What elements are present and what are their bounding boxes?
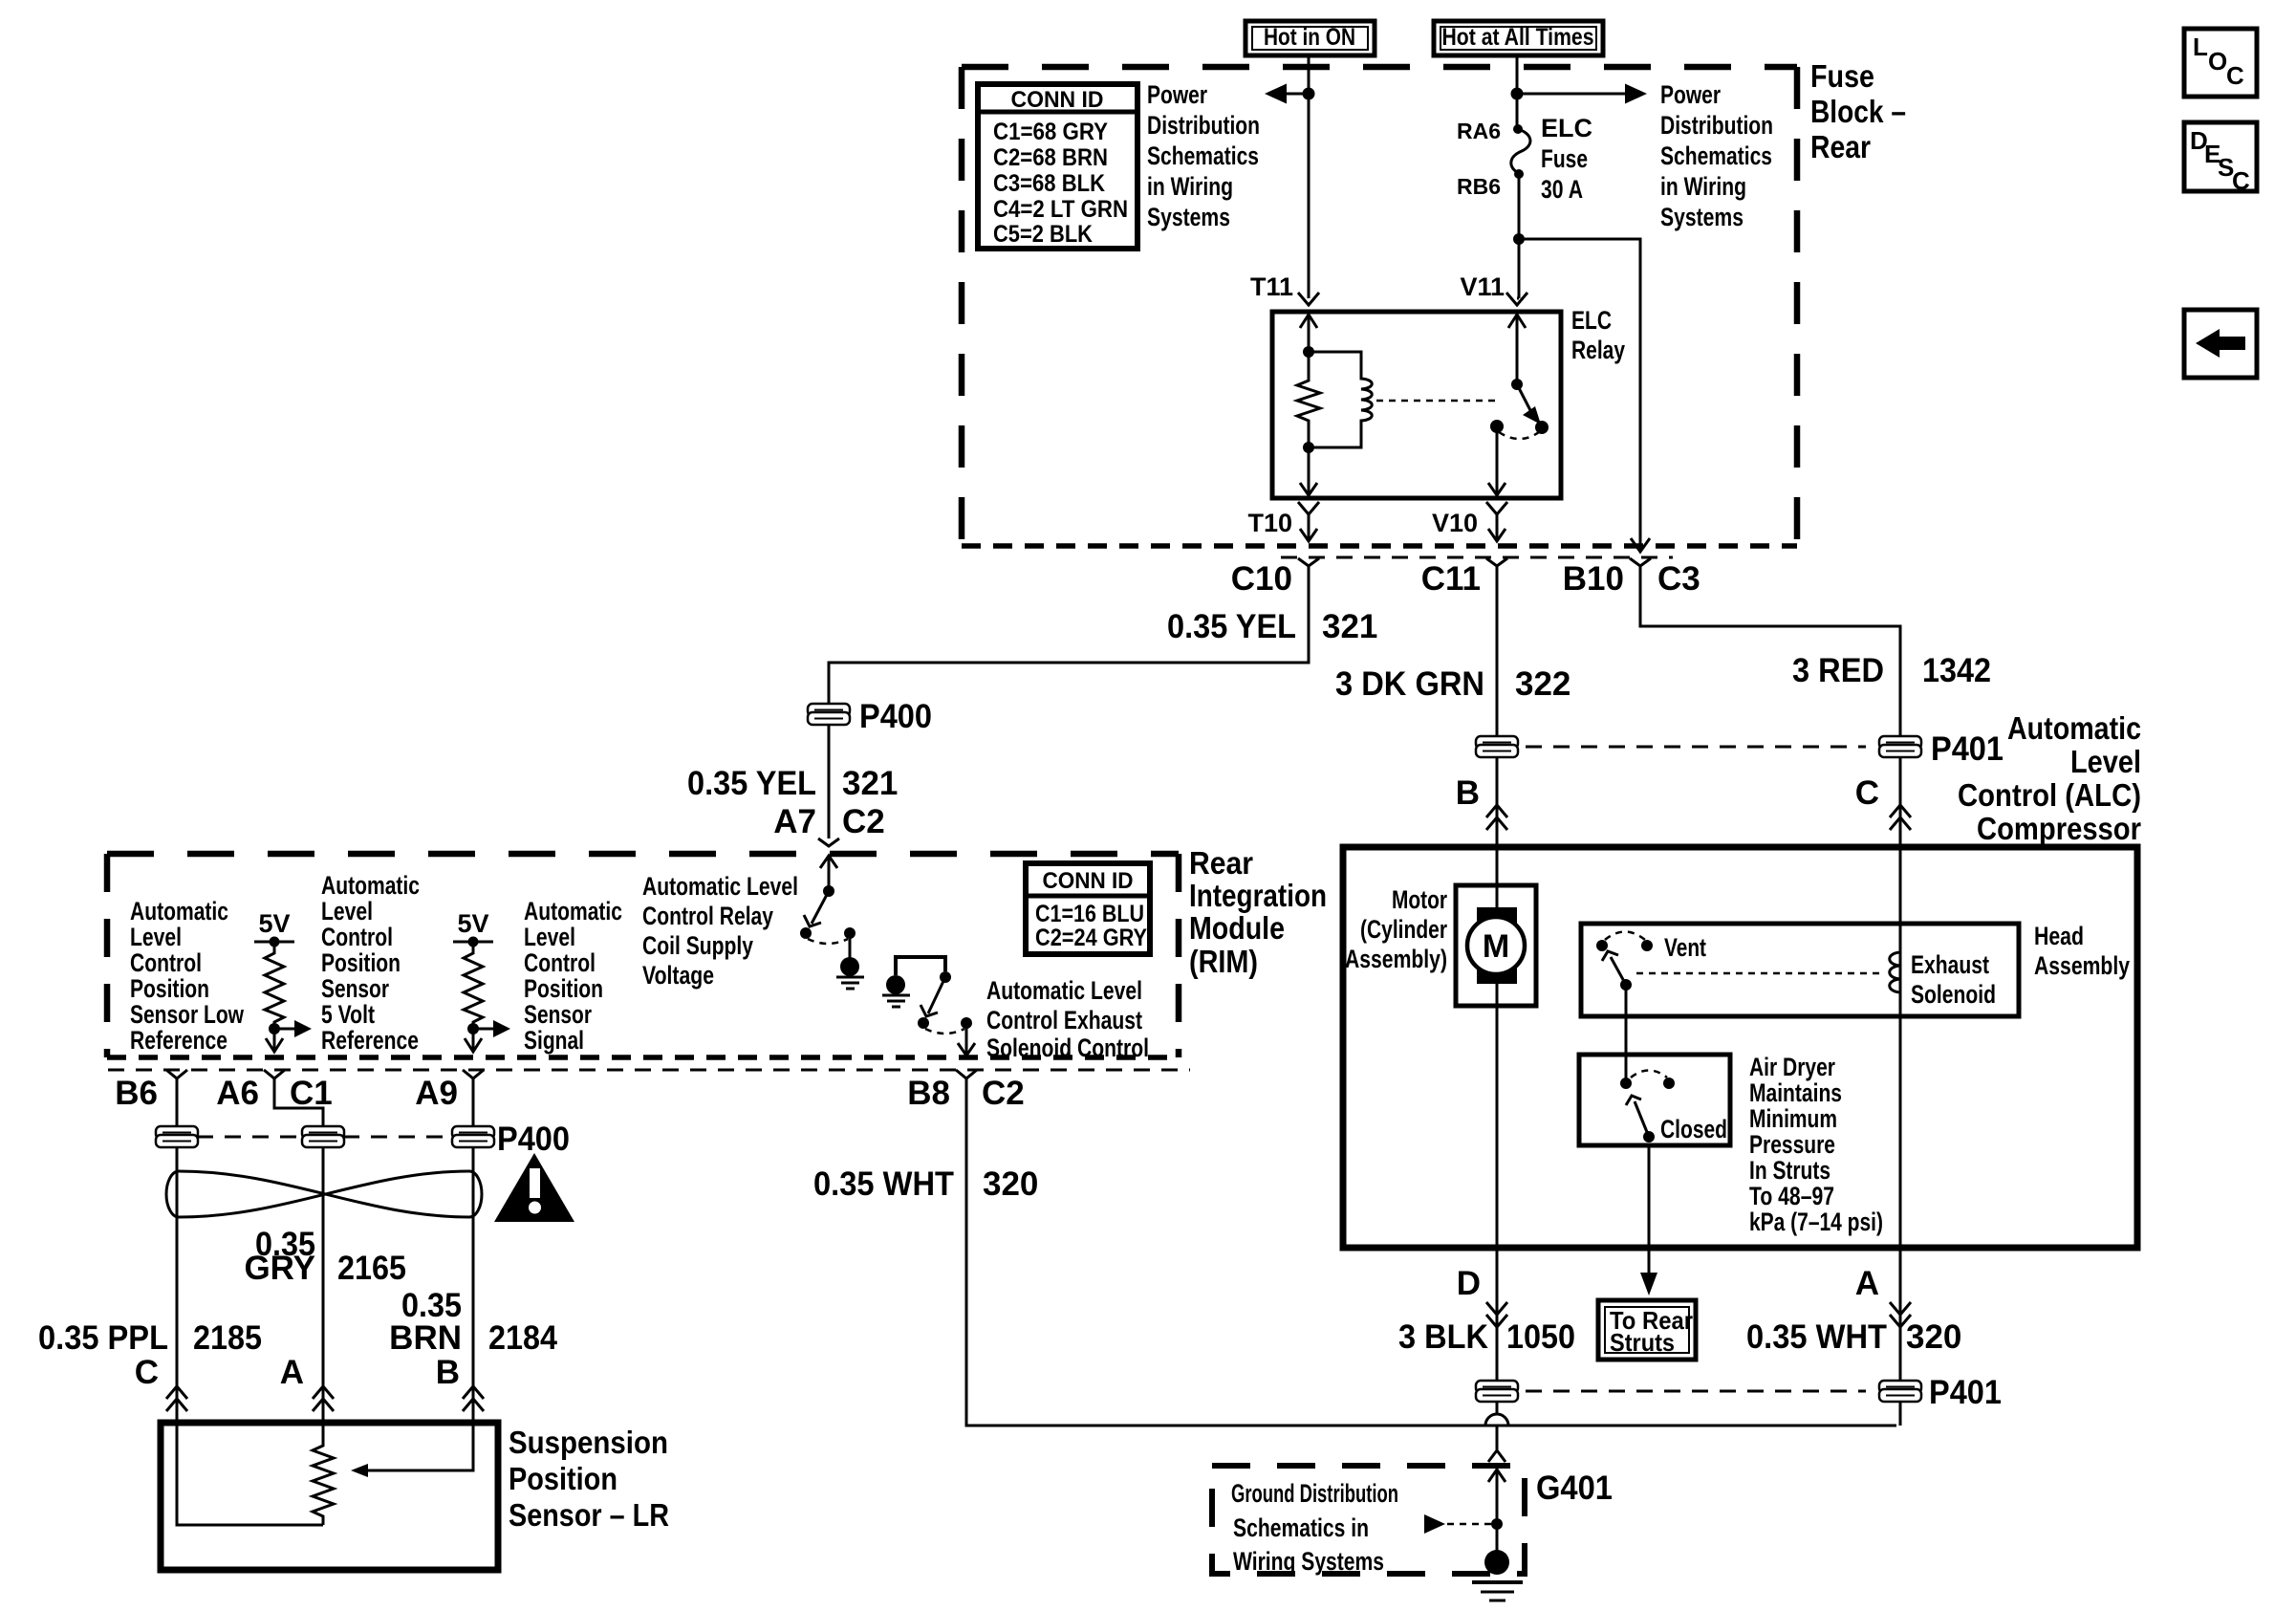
svg-text:Head: Head: [2034, 922, 2084, 950]
wire A down to P401: [1899, 1248, 1902, 1382]
double chevron at A: [313, 1386, 334, 1411]
svg-text:0.35 PPL: 0.35 PPL: [38, 1319, 168, 1357]
svg-text:Relay: Relay: [1571, 336, 1625, 364]
B8/C2 Y connector: [956, 1070, 977, 1078]
inline connector P401 on DK GRN wire: [1476, 736, 1518, 757]
air dryer dashed arc: [1631, 1071, 1667, 1078]
svg-text:Suspension: Suspension: [509, 1425, 668, 1460]
svg-text:Automatic: Automatic: [2007, 710, 2141, 746]
ELC fuse RA6 terminal dot: [1513, 124, 1523, 134]
arrow to right power distribution: [1517, 93, 1625, 96]
svg-text:3 RED: 3 RED: [1792, 652, 1884, 689]
exhaust solenoid switch top bar: [896, 957, 945, 975]
Rear Integration Module dashed enclosure: [107, 851, 1179, 858]
vent switch pivot dot: [1620, 979, 1632, 991]
label "Automatic Level Control (ALC) Compressor": [1958, 710, 2141, 846]
svg-text:T11: T11: [1250, 272, 1293, 301]
double chevron at A: [1890, 1302, 1911, 1327]
Y connector at RIM A7 entry: [818, 838, 839, 846]
svg-text:Assembly: Assembly: [2034, 951, 2130, 980]
svg-text:Sensor Low: Sensor Low: [130, 1000, 245, 1029]
junction dot 2: [467, 1023, 479, 1034]
svg-text:C: C: [1855, 774, 1879, 812]
svg-text:5V: 5V: [258, 909, 290, 938]
twisted pair symbol: [166, 1171, 482, 1217]
svg-text:P401: P401: [1931, 730, 2004, 768]
svg-text:C5=2 BLK: C5=2 BLK: [993, 221, 1093, 248]
svg-text:Struts: Struts: [1610, 1328, 1675, 1357]
relay switch alternate contact dot: [1535, 421, 1549, 434]
svg-text:G401: G401: [1536, 1469, 1613, 1507]
wire RED below P401 to ALC: [1899, 756, 1902, 847]
svg-text:M: M: [1483, 928, 1509, 965]
svg-text:B10: B10: [1563, 560, 1624, 598]
LOC button: [2184, 29, 2257, 97]
Suspension Position Sensor box: [161, 1423, 498, 1570]
svg-text:Control: Control: [130, 948, 202, 977]
warning triangle: [494, 1153, 574, 1222]
svg-text:Hot at All Times: Hot at All Times: [1442, 24, 1594, 51]
svg-text:Automatic: Automatic: [321, 871, 420, 900]
ground symbol 2: [882, 975, 910, 1007]
relay switch dashed travel arc: [1499, 432, 1539, 439]
junction dot on V11 wire: [1511, 88, 1524, 100]
inline connector P401 on BLK wire (bottom): [1476, 1381, 1518, 1402]
relay output arrow down inside box left: [1308, 447, 1310, 496]
double chevron into ALC at B: [1486, 805, 1507, 830]
svg-text:Assembly): Assembly): [1345, 945, 1447, 973]
svg-text:Position: Position: [524, 974, 603, 1003]
svg-text:Control Relay: Control Relay: [642, 902, 773, 930]
exhaust solenoid switch arm: [928, 977, 945, 1013]
label "Motor (Cylinder Assembly)": [1345, 885, 1447, 973]
arrow to left power distribution: [1287, 93, 1309, 96]
svg-text:320: 320: [1906, 1318, 1961, 1356]
Y connector at V11: [1506, 293, 1527, 305]
Ground Distribution dashed box: [1212, 1466, 1525, 1574]
label "ELC Fuse 30 A": [1541, 114, 1592, 204]
inline connector P401 on RED wire: [1879, 736, 1921, 757]
svg-text:P400: P400: [497, 1121, 570, 1158]
svg-text:C4=2 LT GRN: C4=2 LT GRN: [993, 196, 1128, 223]
B10/C3 Y connector: [1630, 558, 1651, 566]
resistor 1: [265, 942, 284, 1029]
air dryer pivot dot: [1620, 1078, 1632, 1089]
svg-text:RB6: RB6: [1457, 174, 1501, 199]
svg-text:322: 322: [1515, 665, 1570, 703]
svg-text:In Struts: In Struts: [1749, 1156, 1830, 1185]
svg-text:0.35 YEL: 0.35 YEL: [1167, 608, 1296, 645]
relay switch pivot dot: [1511, 379, 1523, 390]
text "Air Dryer Maintains Minimum Pressure In Struts To 48-97 kPa (7-14 psi)": [1749, 1053, 1883, 1236]
C11 Y connector: [1486, 558, 1507, 566]
wire from vent switch to air dryer: [1625, 985, 1628, 1083]
dashed link between bottom P401 connectors: [1526, 1390, 1866, 1393]
svg-text:ELC: ELC: [1571, 306, 1612, 335]
svg-text:Automatic Level: Automatic Level: [642, 872, 798, 901]
wire motor down to D: [1496, 973, 1499, 1248]
svg-text:5V: 5V: [457, 909, 488, 938]
svg-text:2165: 2165: [337, 1250, 406, 1287]
svg-text:Motor: Motor: [1392, 885, 1447, 914]
svg-text:Automatic: Automatic: [130, 897, 228, 925]
svg-text:B: B: [436, 1354, 460, 1391]
arrow right from resistor 2: [473, 1028, 493, 1031]
text "Automatic Level Control Position Sensor Signal": [524, 897, 622, 1055]
relay supply switch arm: [812, 891, 829, 924]
chevron above G401: [1488, 1450, 1505, 1462]
svg-text:Level: Level: [524, 923, 575, 951]
wire down from resistor 2: [472, 1029, 475, 1051]
V10 Y connector below relay: [1486, 502, 1507, 514]
svg-text:in Wiring: in Wiring: [1660, 172, 1746, 201]
svg-text:Level: Level: [321, 897, 373, 925]
svg-text:D: D: [1457, 1265, 1481, 1302]
svg-text:CONN ID: CONN ID: [1043, 868, 1134, 894]
svg-text:A6: A6: [216, 1075, 259, 1112]
C10 Y connector: [1298, 558, 1319, 566]
svg-text:C: C: [2226, 61, 2244, 90]
box "Hot in ON": [1245, 21, 1375, 55]
ground symbol G401: [1472, 1550, 1523, 1600]
relay coil input arrow (up) on T11: [1300, 315, 1317, 328]
svg-text:2185: 2185: [193, 1319, 262, 1357]
5V bar 1: [254, 941, 294, 944]
text "Automatic Level Control Exhaust Solenoid Control": [986, 976, 1149, 1062]
svg-text:Signal: Signal: [524, 1026, 584, 1055]
svg-text:Coil Supply: Coil Supply: [642, 931, 753, 960]
svg-text:C2: C2: [982, 1075, 1025, 1112]
relay switch contact dot (to V10): [1490, 420, 1504, 433]
dashed link to exhaust solenoid: [1636, 972, 1879, 975]
svg-text:GRY: GRY: [244, 1250, 315, 1287]
junction dot to B10 branch: [1513, 233, 1525, 245]
wire BLK below P401 with hop over horizontal run: [1496, 1401, 1499, 1414]
double chevron at C: [166, 1386, 187, 1411]
V10 wire to fuse block edge: [1496, 514, 1499, 540]
output wire down to B8: [965, 1023, 968, 1055]
wire V11 vertical from Hot at All Times: [1516, 55, 1519, 129]
inline connector P400 on C1 wire: [302, 1126, 344, 1147]
relay coil: [1309, 352, 1372, 447]
connector row thin dashed line below RIM: [108, 1069, 1190, 1072]
svg-text:30 A: 30 A: [1541, 175, 1583, 204]
Head Assembly box: [1581, 924, 2019, 1016]
motor commutator top: [1477, 907, 1517, 933]
double chevron at D: [1486, 1302, 1507, 1327]
arrow right from resistor 1: [274, 1028, 294, 1031]
dashed link between P400 connectors: [197, 1136, 303, 1139]
relay switch arm with arrowhead: [1517, 384, 1532, 414]
svg-text:Control: Control: [524, 948, 596, 977]
svg-text:1342: 1342: [1922, 652, 1991, 689]
svg-text:C11: C11: [1421, 560, 1481, 598]
Motor box: [1456, 885, 1536, 1006]
wire B6 down: [176, 1078, 179, 1423]
svg-text:A7: A7: [773, 803, 816, 840]
relay supply switch pivot dot: [823, 885, 834, 897]
DESC button: [2184, 122, 2257, 195]
svg-text:Sensor: Sensor: [524, 1000, 592, 1029]
svg-text:Control: Control: [321, 923, 393, 951]
wire down from resistor 1: [273, 1029, 276, 1051]
svg-text:ELC: ELC: [1541, 114, 1592, 142]
air dryer closed contact dot: [1643, 1131, 1655, 1143]
svg-text:Automatic Level: Automatic Level: [986, 976, 1142, 1005]
svg-text:Level: Level: [130, 923, 182, 951]
connector row thin dashed line below fuse block: [1281, 556, 1673, 559]
svg-text:P401: P401: [1929, 1374, 2002, 1411]
junction dot on T11 wire: [1303, 88, 1315, 100]
svg-text:A9: A9: [415, 1075, 458, 1112]
svg-text:Ground Distribution: Ground Distribution: [1231, 1479, 1398, 1508]
svg-text:Voltage: Voltage: [642, 961, 714, 990]
svg-text:T10: T10: [1247, 509, 1292, 537]
wire A6/C1 down with jog: [274, 1078, 323, 1423]
svg-text:Air Dryer: Air Dryer: [1749, 1053, 1835, 1081]
svg-text:Systems: Systems: [1147, 203, 1230, 231]
wire 0.35 WHT 320 down from B8: [966, 1078, 1896, 1426]
arrow down at B10: [1631, 538, 1650, 552]
relay switch input arrow (up) on V11: [1508, 315, 1526, 328]
svg-text:A: A: [1855, 1265, 1879, 1302]
A6/C1 Y connector: [264, 1070, 285, 1078]
svg-text:3 DK GRN: 3 DK GRN: [1335, 665, 1484, 703]
relay switch output wire down: [1496, 426, 1499, 496]
relay supply switch dashed arc: [808, 939, 848, 944]
back arrow button: [2184, 310, 2257, 378]
svg-text:Rear: Rear: [1810, 129, 1871, 164]
svg-text:1050: 1050: [1506, 1318, 1575, 1356]
svg-text:Block –: Block –: [1810, 94, 1906, 129]
svg-text:C: C: [2232, 166, 2250, 195]
ELC Relay box: [1272, 312, 1561, 498]
RIM entry arrow (up) at A7: [820, 856, 837, 868]
svg-text:Schematics: Schematics: [1147, 142, 1259, 170]
exhaust solenoid switch dashed arc: [925, 1029, 964, 1034]
svg-text:Distribution: Distribution: [1660, 111, 1773, 140]
svg-text:0.35 WHT: 0.35 WHT: [813, 1165, 954, 1203]
svg-text:320: 320: [983, 1165, 1038, 1203]
svg-text:Vent: Vent: [1664, 933, 1706, 962]
text "Automatic Level Control Position Sensor Low Reference": [130, 897, 245, 1055]
svg-text:Systems: Systems: [1660, 203, 1744, 231]
inline connector P400 on YEL wire: [808, 704, 850, 725]
svg-text:Wiring Systems: Wiring Systems: [1233, 1547, 1384, 1576]
svg-text:CONN ID: CONN ID: [1011, 87, 1104, 113]
svg-text:Power: Power: [1660, 80, 1721, 109]
air dryer second dot: [1663, 1078, 1675, 1089]
wire YEL below P400: [828, 724, 831, 838]
wire branch to B10/C3: [1519, 239, 1640, 551]
air dryer switch arm: [1635, 1101, 1649, 1137]
svg-text:C1: C1: [290, 1075, 333, 1112]
CONN ID table (RIM): [1026, 863, 1150, 954]
box "Hot at All Times": [1434, 21, 1603, 55]
svg-text:B: B: [1456, 774, 1480, 812]
svg-text:C: C: [135, 1354, 159, 1391]
relay junction dot bottom: [1303, 442, 1314, 453]
inline connector P401 on WHT wire (bottom): [1879, 1381, 1921, 1402]
svg-text:B6: B6: [115, 1075, 158, 1112]
svg-text:3 BLK: 3 BLK: [1398, 1318, 1488, 1356]
inline connector P400 on B6 wire: [156, 1126, 198, 1147]
ALC Compressor box: [1343, 847, 2137, 1248]
relay resistor: [1297, 352, 1320, 447]
vent switch second dot: [1641, 940, 1653, 951]
relay coil-switch dashed link: [1376, 400, 1501, 403]
svg-text:Maintains: Maintains: [1749, 1078, 1842, 1107]
5V bar 2: [453, 941, 493, 944]
svg-text:(RIM): (RIM): [1189, 944, 1258, 979]
svg-text:C2: C2: [842, 803, 885, 840]
text "Automatic Level Control Relay Coil Supply Voltage": [642, 872, 798, 990]
svg-text:Solenoid Control: Solenoid Control: [986, 1034, 1149, 1062]
ELC fuse RB6 terminal dot: [1514, 169, 1524, 179]
svg-text:Solenoid: Solenoid: [1911, 980, 1996, 1009]
dashed pointer arrow to ground wire: [1424, 1514, 1445, 1534]
svg-text:Exhaust: Exhaust: [1911, 950, 1989, 979]
Y connector at T11: [1298, 293, 1319, 305]
double chevron at B: [463, 1386, 484, 1411]
wire T11 vertical from Hot in ON: [1308, 55, 1310, 298]
dashed link between P401 connectors: [1526, 746, 1866, 749]
svg-text:C2=68 BRN: C2=68 BRN: [993, 144, 1108, 171]
motor circle with M: [1467, 917, 1525, 974]
svg-text:5 Volt: 5 Volt: [321, 1000, 375, 1029]
text "Automatic Level Control Position Sensor 5 Volt Reference": [321, 871, 420, 1055]
svg-text:kPa (7–14 psi): kPa (7–14 psi): [1749, 1208, 1883, 1236]
ELC fuse element: [1511, 129, 1530, 174]
resistor 2: [464, 942, 483, 1029]
wire A through head assembly: [1899, 847, 1902, 1248]
svg-text:Position: Position: [509, 1461, 617, 1496]
svg-text:Automatic: Automatic: [524, 897, 622, 925]
svg-text:C3=68 BLK: C3=68 BLK: [993, 170, 1105, 197]
A9/B Y connector: [463, 1070, 484, 1078]
svg-text:C3: C3: [1657, 560, 1700, 598]
svg-text:Schematics: Schematics: [1660, 142, 1772, 170]
wire from air dryer down to To Rear Struts: [1648, 1145, 1651, 1277]
svg-text:O: O: [2208, 47, 2227, 76]
svg-text:2184: 2184: [488, 1319, 557, 1357]
sensor resistor: [313, 1423, 334, 1525]
Air Dryer box: [1579, 1055, 1730, 1145]
wire 0.35 YEL 321 from C10: [829, 566, 1309, 705]
relay junction dot top: [1303, 346, 1314, 358]
svg-text:Sensor: Sensor: [321, 974, 389, 1003]
svg-text:(Cylinder: (Cylinder: [1360, 915, 1447, 944]
svg-text:B8: B8: [907, 1075, 950, 1112]
svg-text:Minimum: Minimum: [1749, 1104, 1837, 1133]
svg-text:Position: Position: [321, 948, 401, 977]
Fuse Block - Rear dashed enclosure: [962, 64, 1797, 71]
svg-text:C10: C10: [1231, 560, 1292, 598]
svg-text:Pressure: Pressure: [1749, 1130, 1835, 1159]
svg-text:321: 321: [1322, 608, 1377, 645]
wire B into motor: [1496, 847, 1499, 918]
svg-text:Fuse: Fuse: [1810, 58, 1874, 94]
text right "Power Distribution Schematics in Wiring Systems": [1660, 80, 1773, 231]
T10 wire to fuse block edge: [1308, 514, 1310, 540]
exhaust solenoid coil: [1890, 952, 1900, 992]
svg-text:Distribution: Distribution: [1147, 111, 1260, 140]
sensor wiper arrow from B: [368, 1423, 473, 1470]
svg-text:Sensor – LR: Sensor – LR: [509, 1497, 669, 1533]
svg-text:Rear: Rear: [1189, 845, 1253, 881]
wire A9 down: [472, 1078, 475, 1423]
svg-text:C2=24 GRY: C2=24 GRY: [1035, 925, 1147, 951]
label "Suspension Position Sensor - LR": [509, 1425, 669, 1533]
svg-text:Control Exhaust: Control Exhaust: [986, 1006, 1142, 1034]
svg-text:Fuse: Fuse: [1541, 144, 1588, 173]
B6 Y connector: [166, 1070, 187, 1078]
svg-text:Power: Power: [1147, 80, 1207, 109]
wire WHT below P401 joins horizontal run: [1899, 1401, 1902, 1426]
svg-text:Position: Position: [130, 974, 209, 1003]
svg-text:321: 321: [842, 765, 898, 802]
svg-text:Hot in ON: Hot in ON: [1264, 24, 1355, 51]
svg-text:0.35 WHT: 0.35 WHT: [1746, 1318, 1887, 1356]
double chevron into ALC at C: [1890, 805, 1911, 830]
wire 3 RED 1342 from C3: [1640, 566, 1900, 737]
svg-text:To 48–97: To 48–97: [1749, 1182, 1834, 1210]
relay supply switch contact dot: [800, 927, 812, 939]
motor commutator bottom: [1477, 958, 1517, 984]
junction dot 1: [269, 1023, 280, 1034]
wire 3 DK GRN 322 from C11: [1496, 566, 1499, 737]
svg-text:A: A: [280, 1354, 304, 1391]
label "Rear Integration Module (RIM)": [1189, 845, 1327, 979]
svg-text:C1=16 BLU: C1=16 BLU: [1035, 901, 1144, 927]
ground stub below switch: [849, 933, 852, 958]
G401 entry arrow: [1496, 1466, 1499, 1557]
svg-text:RA6: RA6: [1457, 119, 1501, 143]
ground symbol 1: [836, 957, 864, 989]
vent switch contact dot: [1596, 940, 1608, 951]
text "Ground Distribution Schematics in Wiring Systems": [1231, 1479, 1398, 1576]
svg-text:BRN: BRN: [389, 1319, 462, 1357]
exhaust solenoid switch pivot dot: [940, 971, 951, 983]
svg-text:Integration: Integration: [1189, 878, 1327, 913]
svg-text:Closed: Closed: [1660, 1115, 1727, 1143]
exhaust solenoid switch output dot: [961, 1017, 972, 1029]
svg-text:Schematics in: Schematics in: [1233, 1513, 1369, 1542]
CONN ID table (fuse block): [978, 84, 1137, 249]
svg-text:0.35 YEL: 0.35 YEL: [687, 765, 816, 802]
svg-text:V10: V10: [1432, 509, 1478, 537]
sensor C wire: [177, 1423, 323, 1525]
exhaust solenoid switch contact dot: [918, 1017, 929, 1029]
svg-text:P400: P400: [859, 698, 932, 735]
svg-text:in Wiring: in Wiring: [1147, 172, 1233, 201]
svg-text:Module: Module: [1189, 910, 1285, 946]
svg-text:Control (ALC): Control (ALC): [1958, 777, 2141, 813]
svg-text:L: L: [2193, 33, 2208, 61]
T10 Y connector below relay: [1298, 502, 1319, 514]
svg-text:C1=68 GRY: C1=68 GRY: [993, 119, 1108, 145]
inline connector P400 on A9 wire: [452, 1126, 494, 1147]
svg-text:Compressor: Compressor: [1977, 811, 2141, 846]
svg-text:Level: Level: [2070, 744, 2141, 779]
vent switch arm: [1611, 957, 1626, 985]
relay supply switch second contact dot: [844, 927, 856, 939]
svg-text:V11: V11: [1460, 272, 1505, 301]
svg-text:Reference: Reference: [130, 1026, 227, 1055]
To Rear Struts box: [1598, 1300, 1696, 1360]
wire DK GRN below P401 to ALC: [1496, 756, 1499, 847]
wire D down to P401: [1496, 1248, 1499, 1382]
